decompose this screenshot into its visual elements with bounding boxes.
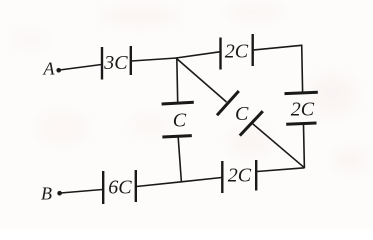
capacitor 6C bbox=[103, 170, 136, 204]
capacitor C middle bbox=[162, 102, 194, 137]
svg-text:A: A bbox=[43, 58, 56, 78]
label C middle bbox=[173, 110, 187, 132]
node B terminal label bbox=[41, 183, 52, 203]
wire A to capacitor 3C bbox=[60, 65, 102, 71]
label 6C bbox=[108, 177, 132, 199]
svg-text:C: C bbox=[173, 110, 187, 132]
svg-text:2C: 2C bbox=[228, 164, 252, 186]
wire B to capacitor 6C bbox=[61, 190, 103, 194]
wire 2C bottom to node2 bbox=[257, 168, 305, 172]
wire 6C to junction to capacitor 2C bottom bbox=[137, 178, 222, 187]
capacitor 3C bbox=[102, 46, 131, 80]
wire right corner down to capacitor 2C right bbox=[301, 45, 304, 92]
wire 3C to node1 bbox=[132, 58, 177, 61]
wire node1 to capacitor 2C top bbox=[176, 52, 220, 58]
svg-text:2C: 2C bbox=[291, 99, 315, 121]
node A terminal label bbox=[43, 58, 56, 78]
label 2C right bbox=[291, 99, 315, 121]
svg-text:C: C bbox=[235, 103, 249, 125]
wire node1 to diagonal capacitor C bbox=[176, 58, 227, 102]
svg-text:B: B bbox=[41, 183, 52, 203]
label 2C top bbox=[225, 41, 249, 63]
node B terminal dot bbox=[57, 191, 62, 196]
wire node1 down to capacitor C middle bbox=[176, 58, 179, 103]
node A terminal dot bbox=[56, 68, 61, 73]
capacitor 2C top bbox=[221, 34, 253, 70]
capacitor 2C right bbox=[285, 92, 318, 124]
svg-text:6C: 6C bbox=[108, 177, 132, 199]
wire diagonal capacitor to node2 bbox=[252, 123, 305, 168]
label C diagonal bbox=[235, 103, 249, 125]
capacitor C diagonal bbox=[217, 91, 263, 136]
svg-text:2C: 2C bbox=[225, 41, 249, 63]
wire 2C top to right corner bbox=[254, 45, 302, 50]
wire 2C right to node2 bbox=[303, 125, 306, 168]
capacitor 2C bottom bbox=[222, 160, 256, 193]
wire C middle to bottom wire bbox=[178, 138, 181, 183]
label 3C bbox=[103, 52, 128, 74]
svg-text:3C: 3C bbox=[103, 52, 128, 74]
label 2C bottom bbox=[228, 164, 252, 186]
